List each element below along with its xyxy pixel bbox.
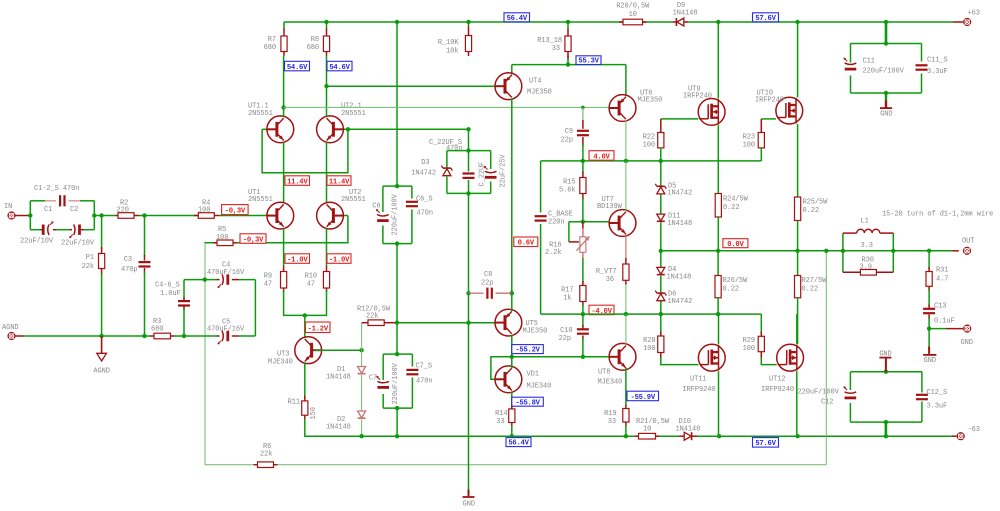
svg-text:R28: R28 xyxy=(643,337,655,345)
svg-text:470p: 470p xyxy=(121,266,137,274)
transistor VT8 MJE340 xyxy=(598,343,636,386)
svg-text:BD139W: BD139W xyxy=(597,203,623,211)
junction dots base net xyxy=(346,127,471,131)
svg-text:33: 33 xyxy=(552,45,560,53)
junction dots OUT net xyxy=(659,249,932,253)
mosfet VT12 IRFP9240 xyxy=(761,344,803,394)
capacitor C8 22p xyxy=(481,271,493,299)
svg-text:100: 100 xyxy=(216,234,228,242)
wire R5 net from VT2 base xyxy=(205,216,348,465)
svg-text:56.4V: 56.4V xyxy=(508,440,529,448)
svg-text:100: 100 xyxy=(198,207,210,215)
svg-text:AGND: AGND xyxy=(93,368,109,376)
resistor R_VT7 36 xyxy=(596,264,629,314)
resistor R24/5W 0.22 xyxy=(715,194,748,251)
svg-text:1N4148: 1N4148 xyxy=(673,10,698,18)
resistor R11 150 xyxy=(288,396,318,421)
svg-text:C11: C11 xyxy=(863,58,875,66)
wire VT4 collector down to C8 xyxy=(511,99,513,294)
svg-text:0.22: 0.22 xyxy=(802,286,818,294)
svg-text:-0,3V: -0,3V xyxy=(243,236,264,244)
capacitor C12_S 3.3uF xyxy=(916,389,947,411)
svg-text:P1: P1 xyxy=(86,254,94,262)
wire C7 box xyxy=(383,352,412,410)
wire R2 to R4 xyxy=(139,215,198,217)
wire VT3 emitter to R11 xyxy=(304,362,306,397)
svg-text:220uF/100V: 220uF/100V xyxy=(863,68,905,76)
capacitor C_22UF 470n xyxy=(429,139,486,193)
capacitor C7_S 470n xyxy=(406,363,432,386)
voltage label 11.4V right xyxy=(327,176,351,186)
svg-text:C13: C13 xyxy=(934,303,946,311)
junction dots input net xyxy=(28,213,147,217)
svg-text:C7: C7 xyxy=(369,375,377,383)
zener D6 1N4742 xyxy=(655,291,692,307)
capacitor C2 22uF/10V xyxy=(61,206,95,248)
svg-text:10: 10 xyxy=(643,426,651,434)
voltage label -1.0V right xyxy=(327,254,351,263)
terminal AGND xyxy=(2,324,18,340)
svg-text:0.22: 0.22 xyxy=(723,286,739,294)
transistor VD1 MJE340 xyxy=(495,366,551,393)
wire +63 top rail xyxy=(284,21,963,186)
wire input pair base box xyxy=(262,129,348,215)
wire bias net y=314 xyxy=(541,312,762,316)
wire -56V rail y=436 xyxy=(362,435,957,437)
resistor R5 xyxy=(213,226,237,246)
svg-text:GND: GND xyxy=(961,339,973,347)
svg-text:1N4148: 1N4148 xyxy=(326,424,351,432)
svg-text:IRFP9240: IRFP9240 xyxy=(761,386,794,394)
wire VD1 base branch xyxy=(491,357,512,380)
wire VT2.1 emitter to VT2 collector xyxy=(326,142,328,203)
zener D3 1N4742 xyxy=(411,159,452,178)
svg-text:R15: R15 xyxy=(563,179,575,187)
svg-text:-1.2V: -1.2V xyxy=(308,326,329,334)
wire OUT net xyxy=(661,250,959,252)
svg-text:MJE340: MJE340 xyxy=(268,359,293,367)
resistor R10 xyxy=(305,266,330,292)
svg-text:22p: 22p xyxy=(481,280,493,288)
svg-text:1N4148: 1N4148 xyxy=(326,374,351,382)
mosfet VT11 IRFP9240 xyxy=(683,344,726,394)
svg-text:R9: R9 xyxy=(264,273,272,281)
wire VT12 source up to R27 xyxy=(796,314,798,344)
svg-text:55.3V: 55.3V xyxy=(578,58,599,66)
diode D1 1N4148 xyxy=(326,366,366,382)
capacitor C12 220uF/100V xyxy=(798,386,857,406)
voltage label 54.6V left xyxy=(285,61,310,71)
voltage label 11.4V left xyxy=(285,176,310,186)
resistor R27/5W 0.22 xyxy=(795,251,828,344)
svg-text:MJE340: MJE340 xyxy=(527,383,552,391)
svg-text:IRFP240: IRFP240 xyxy=(683,93,712,101)
capacitor C1-2_S 470n xyxy=(34,185,79,206)
svg-text:R_10K: R_10K xyxy=(438,39,459,47)
svg-text:2N5551: 2N5551 xyxy=(341,196,366,204)
wire VT1.1 collector to VT6 base xyxy=(284,106,610,110)
wire diode chain upper xyxy=(660,161,662,251)
mosfet VT10 IRFP240 xyxy=(755,90,803,125)
wire VT11 source up to OUT xyxy=(718,314,720,344)
svg-text:22uF/10V: 22uF/10V xyxy=(61,240,95,248)
svg-text:R26/5W: R26/5W xyxy=(723,277,749,285)
voltage label 55.3V xyxy=(576,56,601,65)
svg-text:680: 680 xyxy=(307,44,319,52)
resistor R31 4.7 xyxy=(926,251,948,306)
terminal +63 xyxy=(963,10,980,27)
svg-text:57.6V: 57.6V xyxy=(755,440,776,448)
svg-text:MJE350: MJE350 xyxy=(523,328,548,336)
svg-text:C12_S: C12_S xyxy=(927,389,948,397)
resistor R13_18 xyxy=(537,28,571,58)
svg-text:R27/5W: R27/5W xyxy=(802,277,828,285)
voltage label 0.0V xyxy=(723,239,748,248)
svg-text:22k: 22k xyxy=(260,451,272,459)
svg-text:54.6V: 54.6V xyxy=(329,64,350,72)
voltage label 54.6V right xyxy=(327,61,352,71)
svg-text:IRFP9240: IRFP9240 xyxy=(683,386,716,394)
wire C_22UF_S box xyxy=(447,148,491,195)
wire C13 to GND terminal xyxy=(927,326,963,330)
svg-text:220uF/100V: 220uF/100V xyxy=(798,389,840,397)
wire VT1.1 collector xyxy=(281,56,285,117)
svg-text:22p: 22p xyxy=(559,335,571,343)
svg-text:470n: 470n xyxy=(416,378,432,386)
svg-text:15-20 turn of d1-1,2mm wire: 15-20 turn of d1-1,2mm wire xyxy=(882,211,993,219)
svg-text:33: 33 xyxy=(608,418,616,426)
capacitor C7 220uF/100V xyxy=(369,362,400,404)
wire C_BASE branch xyxy=(540,161,542,314)
voltage label 57.6V top xyxy=(753,13,779,22)
wire VT7 collector xyxy=(625,161,627,212)
transistor VT2.1 2N5551 xyxy=(317,103,366,143)
svg-text:0.1uF: 0.1uF xyxy=(934,318,955,326)
wire C11 box xyxy=(851,41,922,95)
svg-text:UT3: UT3 xyxy=(277,351,289,359)
svg-text:L1: L1 xyxy=(861,218,869,226)
wire VT8 collector up xyxy=(625,314,627,346)
junction dots -56V rail xyxy=(359,434,888,438)
wire VT1.1 emitter to VT1 collector xyxy=(283,142,285,203)
ground GND bottom centre xyxy=(463,490,475,509)
inductor L1 3.3 xyxy=(843,218,893,251)
svg-text:-55.8V: -55.8V xyxy=(515,399,540,407)
wire VT5 collector down xyxy=(510,335,514,359)
svg-text:R10: R10 xyxy=(305,273,317,281)
wire x=468 from base net to box xyxy=(468,129,470,150)
wire R6 feedback net xyxy=(205,251,826,465)
wire x=397 middle segment xyxy=(396,244,398,323)
wire AGND net xyxy=(16,280,256,336)
transistor VT2 2N5551 xyxy=(317,189,366,229)
wire VT11 drain down xyxy=(718,371,720,436)
capacitor C9 22p xyxy=(561,107,589,160)
potentiometer P1 22k xyxy=(82,216,105,337)
terminal OUT xyxy=(962,238,974,255)
svg-text:470uF/16V: 470uF/16V xyxy=(207,326,245,334)
transistor VT1 2N5551 xyxy=(248,189,294,229)
terminal -63 xyxy=(957,426,980,440)
wire VT12 drain down xyxy=(796,371,798,436)
voltage label -55.8V xyxy=(512,397,544,406)
svg-text:R31: R31 xyxy=(936,267,948,275)
resistor R20 xyxy=(616,3,650,25)
resistor R28 100 xyxy=(643,314,698,365)
svg-text:R14: R14 xyxy=(495,410,507,418)
zener D5 1N4742 xyxy=(655,183,692,198)
svg-text:-63: -63 xyxy=(968,426,980,434)
capacitor C6_S 470n xyxy=(406,196,433,218)
svg-text:C8: C8 xyxy=(484,271,492,279)
svg-text:47: 47 xyxy=(307,281,315,289)
wire 4.0V net y=161 xyxy=(541,159,762,163)
wire R12 branch xyxy=(362,323,368,351)
svg-text:56.4V: 56.4V xyxy=(507,15,528,23)
svg-text:0.22: 0.22 xyxy=(723,204,739,212)
svg-text:4.0V: 4.0V xyxy=(593,153,610,161)
wire x=468 C8 to VT5 base net xyxy=(468,293,470,323)
svg-text:2.2k: 2.2k xyxy=(545,249,561,257)
svg-text:100: 100 xyxy=(743,142,755,150)
voltage label -55.9V xyxy=(627,391,659,401)
wire VT2.1 base net to C_22UF_S xyxy=(348,128,469,130)
ground AGND symbol xyxy=(93,336,109,376)
svg-text:R29: R29 xyxy=(743,337,755,345)
svg-text:UT11: UT11 xyxy=(690,376,706,384)
wire VT9 source to R24 xyxy=(717,125,719,193)
wire D1 D2 chain xyxy=(361,350,363,436)
wire 55.3V net xyxy=(512,56,626,97)
capacitor C6 220uF/100V xyxy=(372,193,399,235)
voltage label 56.4V bottom xyxy=(506,438,531,447)
svg-text:C12: C12 xyxy=(821,399,833,407)
terminal IN xyxy=(4,203,16,220)
svg-text:D3: D3 xyxy=(421,159,429,167)
voltage label -1.0V left xyxy=(285,254,310,263)
capacitor C13 0.1uF xyxy=(923,303,955,329)
diode D4 1N4148 xyxy=(657,266,691,282)
svg-text:3.3: 3.3 xyxy=(861,242,873,250)
wire VD1 emitter down to R14 xyxy=(511,392,513,407)
svg-text:5.6k: 5.6k xyxy=(559,187,575,195)
svg-text:GND: GND xyxy=(880,111,892,119)
svg-text:1k: 1k xyxy=(563,295,571,303)
wire VT1 emitter to R9 xyxy=(283,228,285,266)
svg-text:470n: 470n xyxy=(417,210,433,218)
junction dots AGND net xyxy=(99,277,207,338)
svg-text:GND: GND xyxy=(463,500,475,506)
svg-text:R8: R8 xyxy=(311,36,319,44)
wire VT3 base net xyxy=(314,348,363,352)
svg-text:57.6V: 57.6V xyxy=(755,15,776,23)
svg-text:100: 100 xyxy=(743,345,755,353)
wire x=468 down to GND xyxy=(468,323,470,490)
wire C7 to -56 rail xyxy=(396,408,398,436)
svg-text:C1: C1 xyxy=(44,206,52,214)
transistor VT4 MJE350 xyxy=(495,73,552,100)
resistor R21/0,5W 10 xyxy=(635,418,670,439)
voltage label -0,3V upper xyxy=(222,205,249,215)
wire C6 box xyxy=(383,184,412,246)
svg-text:MJE350: MJE350 xyxy=(638,97,663,105)
resistor R29 100 xyxy=(743,314,777,365)
svg-text:+63: +63 xyxy=(968,10,980,18)
wire C8 net xyxy=(466,291,514,295)
svg-text:150: 150 xyxy=(310,407,318,419)
svg-text:2N5551: 2N5551 xyxy=(248,110,273,118)
svg-text:47: 47 xyxy=(264,281,272,289)
wire VT7 emitter to R_VT7 xyxy=(625,234,627,264)
diode D10 1N4148 xyxy=(676,418,701,440)
wire x=397 lower segment xyxy=(396,323,398,354)
svg-text:22p: 22p xyxy=(561,137,573,145)
svg-text:C3: C3 xyxy=(124,256,132,264)
svg-text:22k: 22k xyxy=(366,313,378,321)
wire VT8 base net xyxy=(512,355,609,359)
svg-text:680: 680 xyxy=(264,44,276,52)
svg-text:10: 10 xyxy=(629,11,637,19)
svg-text:220n: 220n xyxy=(548,219,564,227)
svg-text:C1-2_S 470n: C1-2_S 470n xyxy=(34,185,79,193)
svg-text:0.6V: 0.6V xyxy=(518,240,535,248)
svg-text:22uF/10V: 22uF/10V xyxy=(20,238,54,246)
svg-text:1N4148: 1N4148 xyxy=(667,274,692,282)
svg-text:3.3uF: 3.3uF xyxy=(927,68,948,76)
svg-text:220uF/100V: 220uF/100V xyxy=(392,362,400,404)
svg-text:R19: R19 xyxy=(604,410,616,418)
svg-text:R21/0,5W: R21/0,5W xyxy=(636,418,670,426)
junction dots on +63 rail xyxy=(324,20,888,24)
svg-text:1N4148: 1N4148 xyxy=(676,426,701,434)
ground GND below C13 xyxy=(923,329,936,365)
svg-text:AGND: AGND xyxy=(2,324,18,332)
transistor VT7 BD139W xyxy=(597,196,636,236)
resistor R22 100 xyxy=(643,119,699,161)
resistor R30 3.9 xyxy=(843,251,893,275)
svg-text:3.9: 3.9 xyxy=(860,264,872,272)
svg-text:MJE350: MJE350 xyxy=(527,89,552,97)
wire VT10 source to R25 xyxy=(797,124,799,197)
transistor VT6 MJE350 xyxy=(609,90,662,122)
svg-text:680: 680 xyxy=(151,326,163,334)
svg-text:100: 100 xyxy=(643,142,655,150)
svg-text:UT8: UT8 xyxy=(598,369,610,377)
svg-text:54.6V: 54.6V xyxy=(287,64,308,72)
ground GND above C12 xyxy=(879,351,891,372)
capacitor C10 22p xyxy=(559,314,589,357)
svg-text:UT12: UT12 xyxy=(769,376,785,384)
wire VT3 emitter to -56 rail xyxy=(305,419,362,437)
svg-text:11.4V: 11.4V xyxy=(329,178,350,186)
svg-text:R11: R11 xyxy=(288,399,300,407)
resistor R2 xyxy=(116,200,140,219)
resistor R26/5W 0.22 xyxy=(715,251,748,314)
svg-text:C_22UF: C_22UF xyxy=(478,162,486,187)
capacitor C11 220uF/100V xyxy=(844,58,905,76)
capacitor C4 470uF/16V xyxy=(207,262,245,289)
svg-text:22k: 22k xyxy=(82,263,94,271)
mosfet VT9 IRFP240 xyxy=(683,86,725,126)
transistor VT5 MJE350 xyxy=(495,309,547,336)
svg-text:-1.0V: -1.0V xyxy=(287,256,308,264)
wire R9 R10 join to VT3 collector xyxy=(284,290,327,338)
wire VT8 emitter down to R19 xyxy=(625,368,627,406)
svg-text:1N4148: 1N4148 xyxy=(667,220,692,228)
svg-text:R22: R22 xyxy=(643,134,655,142)
svg-text:2N5551: 2N5551 xyxy=(341,110,366,118)
transistor VT1.1 2N5551 xyxy=(248,103,294,143)
svg-text:C10: C10 xyxy=(560,327,572,335)
wire VT5 base net y=322.6 xyxy=(395,321,495,325)
wire x=468 box to C8 xyxy=(468,193,470,293)
transistor VT3 MJE340 xyxy=(268,337,322,367)
resistor R25/5W 0.22 xyxy=(795,197,829,251)
voltage label -1.2V xyxy=(306,322,331,333)
svg-text:-1.0V: -1.0V xyxy=(329,256,350,264)
svg-text:-55.2V: -55.2V xyxy=(515,347,540,355)
svg-text:OUT: OUT xyxy=(962,238,974,246)
resistor R19 33 xyxy=(604,405,629,436)
svg-text:C11_S: C11_S xyxy=(927,57,948,65)
svg-text:22uF/25V: 22uF/25V xyxy=(499,154,507,188)
resistor R14 33 xyxy=(495,406,515,437)
resistor R15 5.6k xyxy=(559,161,586,222)
svg-text:-55.9V: -55.9V xyxy=(631,394,656,402)
resistor R6 22k xyxy=(254,443,278,468)
svg-text:220uF/100V: 220uF/100V xyxy=(391,193,399,235)
terminal GND right xyxy=(961,325,973,348)
svg-text:R25/5W: R25/5W xyxy=(803,199,829,207)
svg-text:1N4742: 1N4742 xyxy=(668,298,693,306)
wire VT2 emitter to R10 xyxy=(326,228,328,266)
svg-text:C2: C2 xyxy=(70,206,78,214)
svg-text:IRFP240: IRFP240 xyxy=(755,97,784,105)
ground GND below C11 xyxy=(880,93,892,119)
voltage label 0.6V xyxy=(514,237,538,247)
svg-text:R20/0,5W: R20/0,5W xyxy=(616,3,650,11)
svg-text:C4-6_S: C4-6_S xyxy=(155,282,180,290)
capacitor C_BASE 220n xyxy=(535,211,573,227)
svg-text:470uF/16V: 470uF/16V xyxy=(207,269,245,277)
wire VT6 collector down xyxy=(625,121,627,161)
capacitor C11_S 3.3uF xyxy=(916,57,948,77)
wire C12 box xyxy=(850,370,922,437)
svg-text:UT4: UT4 xyxy=(529,78,541,86)
wire VT7 base net xyxy=(569,220,609,242)
wire R4 to VT1 base xyxy=(219,215,267,217)
svg-text:33: 33 xyxy=(496,418,504,426)
svg-text:C6_S: C6_S xyxy=(416,196,432,204)
resistor R7 xyxy=(264,28,287,56)
voltage label -55.2V xyxy=(512,345,544,354)
svg-text:0.22: 0.22 xyxy=(803,207,819,215)
svg-text:0.0V: 0.0V xyxy=(727,241,744,249)
wire VT2.1 collector to VT4 base xyxy=(327,85,495,87)
svg-text:-0,3V: -0,3V xyxy=(225,208,246,216)
svg-text:IN: IN xyxy=(4,203,12,211)
resistor R12/0,5W 22k xyxy=(357,306,397,326)
resistor R3 xyxy=(150,318,175,339)
voltage label 56.4V top xyxy=(504,13,530,22)
svg-text:R13_18: R13_18 xyxy=(537,37,562,45)
voltage label 57.6V bottom xyxy=(753,438,779,448)
svg-text:VD1: VD1 xyxy=(527,371,539,379)
svg-text:C6: C6 xyxy=(372,203,380,211)
svg-text:1N4742: 1N4742 xyxy=(667,190,692,198)
wire input net IN xyxy=(16,201,116,230)
resistor R8 xyxy=(307,28,330,56)
